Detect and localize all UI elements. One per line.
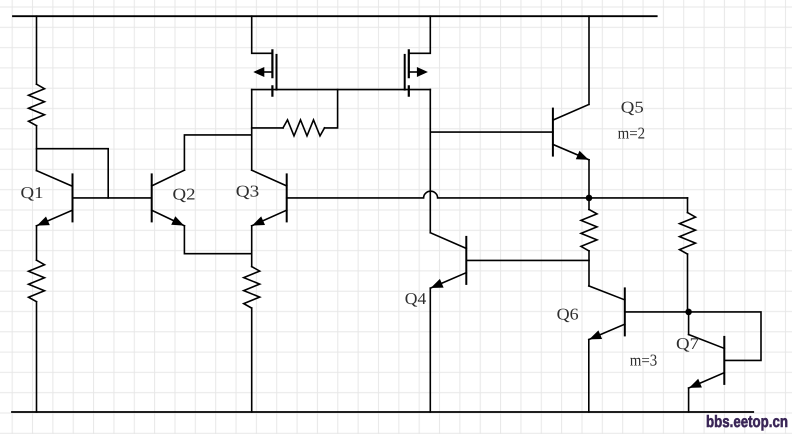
svg-text:Q3: Q3 xyxy=(236,181,260,200)
svg-text:bbs.eetop.cn: bbs.eetop.cn xyxy=(706,413,788,431)
svg-text:Q4: Q4 xyxy=(405,289,427,308)
svg-text:Q5: Q5 xyxy=(621,97,644,116)
svg-text:m=3: m=3 xyxy=(630,350,658,369)
svg-text:Q6: Q6 xyxy=(557,305,579,324)
svg-text:Q1: Q1 xyxy=(21,183,44,202)
svg-text:m=2: m=2 xyxy=(618,123,646,142)
svg-text:Q7: Q7 xyxy=(676,334,699,353)
svg-text:Q2: Q2 xyxy=(173,184,196,203)
